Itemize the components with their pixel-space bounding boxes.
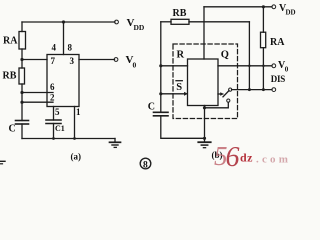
- svg-text:(a): (a): [71, 152, 82, 162]
- svg-text:0: 0: [285, 66, 289, 74]
- svg-text:2: 2: [50, 92, 55, 102]
- svg-text:6: 6: [50, 82, 55, 92]
- svg-text:Q: Q: [221, 50, 229, 61]
- svg-text:RA: RA: [3, 36, 18, 47]
- svg-text:4: 4: [52, 42, 57, 52]
- svg-text:3: 3: [70, 56, 75, 66]
- svg-text:0: 0: [133, 61, 137, 70]
- svg-text:.com: .com: [256, 154, 291, 166]
- svg-text:1: 1: [76, 107, 81, 117]
- svg-text:S: S: [176, 82, 182, 93]
- svg-text:C: C: [148, 102, 155, 113]
- svg-text:R: R: [177, 50, 185, 61]
- svg-text:RB: RB: [3, 71, 17, 82]
- svg-text:5: 5: [55, 107, 60, 117]
- svg-text:C1: C1: [55, 124, 65, 133]
- svg-text:DD: DD: [286, 9, 296, 17]
- svg-text:RA: RA: [270, 37, 285, 48]
- svg-text:C: C: [9, 124, 16, 135]
- svg-text:RB: RB: [173, 8, 187, 19]
- svg-text:dz: dz: [240, 151, 253, 165]
- svg-text:DIS: DIS: [271, 74, 285, 84]
- svg-text:8: 8: [68, 42, 73, 52]
- svg-text:8: 8: [143, 160, 148, 170]
- svg-text:6: 6: [226, 142, 240, 171]
- svg-text:DD: DD: [134, 23, 145, 32]
- svg-text:7: 7: [51, 56, 56, 66]
